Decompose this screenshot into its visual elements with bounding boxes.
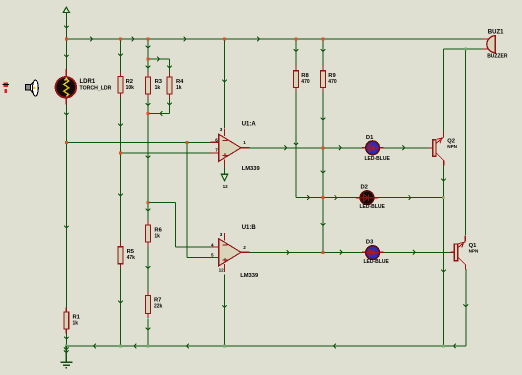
wire ground rail (bottom)	[66, 345, 466, 347]
svg-text:470: 470	[328, 79, 337, 85]
wire R1 to ground rail	[65, 332, 67, 346]
svg-text:LED-BLUE: LED-BLUE	[364, 259, 390, 265]
wire U1:B output to D3 to Q1 base	[250, 251, 363, 253]
wire U1:B ground pin down to rail	[224, 274, 226, 346]
junction squares (light green)	[442, 196, 445, 199]
svg-text:22k: 22k	[154, 304, 163, 310]
wire VCC top rail	[66, 38, 483, 40]
svg-text:2: 2	[243, 245, 246, 250]
LED D1 (LED-BLUE, lit)	[362, 147, 366, 149]
LED D3 (LED-BLUE, lit)	[362, 251, 366, 253]
power symbol +V (top)	[63, 7, 69, 12]
wire Q2 collector feed	[442, 49, 444, 132]
svg-text:6: 6	[215, 137, 218, 142]
wire D2 node down to ground rail	[442, 198, 444, 347]
svg-text:BUZZER: BUZZER	[487, 54, 508, 60]
svg-text:1: 1	[243, 140, 246, 145]
wire R3/R4 branch from rail	[147, 39, 149, 59]
wire node A to R1	[65, 142, 67, 308]
svg-text:1k: 1k	[155, 85, 161, 91]
wire R8 branch from rail	[295, 39, 297, 66]
resistor R7	[147, 291, 149, 296]
op-amp U1:B	[211, 246, 219, 248]
buzzer BUZ1	[482, 38, 489, 40]
svg-text:3: 3	[220, 232, 223, 237]
resistor R8	[295, 66, 297, 71]
junction dots (orange)	[65, 38, 68, 41]
wire R9 branch from rail	[322, 39, 324, 66]
wire U1:A output to D1 to Q2 base	[250, 147, 363, 149]
wire node D to U1:B pin 5	[186, 142, 188, 257]
wire Q1 emitter to ground rail	[465, 269, 467, 346]
wire D2 row	[323, 197, 356, 199]
svg-text:LDR1: LDR1	[80, 79, 96, 85]
resistor R1	[65, 307, 67, 312]
wire R7 to ground rail	[147, 319, 149, 347]
wire arrows on VCC rail and power drop	[64, 26, 69, 28]
LED D2 (LED-BLUE, off)	[356, 197, 360, 199]
svg-text:1k: 1k	[176, 85, 182, 91]
resistor R2	[120, 72, 122, 77]
resistor R9	[322, 66, 324, 71]
svg-text:5: 5	[211, 253, 214, 258]
speaker icon (simulation sound marker)	[25, 84, 30, 90]
wire R4 bottom link	[169, 99, 171, 114]
resistor R4	[169, 72, 171, 77]
svg-text:7: 7	[215, 148, 218, 153]
svg-text:1k: 1k	[154, 234, 160, 240]
wire R2 bottom to node B	[120, 98, 122, 154]
wire R3 top	[147, 59, 149, 73]
svg-text:LM339: LM339	[240, 273, 259, 279]
svg-text:470: 470	[301, 79, 310, 85]
svg-text:D1: D1	[366, 135, 374, 141]
ground symbol below U1:A	[221, 174, 228, 181]
wire R3 bottom	[147, 99, 149, 114]
wire R2 branch from rail	[120, 39, 122, 72]
op-amp U1:A	[211, 141, 219, 143]
transistor Q2 (NPN)	[429, 147, 433, 149]
ground symbol (bottom left)	[65, 346, 67, 362]
svg-text:NPN: NPN	[447, 144, 457, 149]
wire R8 link to output bus	[296, 197, 323, 199]
wire node B to R5	[120, 153, 122, 242]
svg-text:LM339: LM339	[242, 166, 261, 172]
svg-text:D2: D2	[361, 185, 368, 191]
wire node C to U1:B pin 4	[148, 202, 176, 204]
wire R6 to R7	[147, 247, 149, 292]
svg-text:NPN: NPN	[469, 248, 479, 253]
photoresistor LDR1	[65, 69, 67, 77]
svg-text:LED-BLUE: LED-BLUE	[360, 204, 386, 210]
svg-text:TORCH_LDR: TORCH_LDR	[80, 85, 112, 91]
resistor R3	[147, 72, 149, 77]
wire R5 bottom to ground rail	[120, 268, 122, 346]
wire power drop to VCC rail	[65, 12, 67, 39]
wire arrows on ground rail	[94, 344, 96, 349]
wire R8 bottom down	[295, 92, 297, 198]
resistor R6	[147, 220, 149, 225]
svg-text:BUZ1: BUZ1	[488, 30, 504, 36]
transistor Q1 (NPN)	[450, 251, 454, 253]
svg-text:D3: D3	[366, 240, 374, 246]
svg-text:12: 12	[223, 184, 229, 189]
svg-text:12: 12	[219, 267, 225, 272]
svg-text:4: 4	[211, 242, 214, 247]
wire R3R4 node down to node C	[147, 114, 149, 203]
red margin marker	[3, 83, 8, 87]
svg-text:47k: 47k	[127, 255, 136, 261]
wire U1:A inverting input line	[66, 141, 210, 143]
wire Q1 collector feed	[465, 49, 467, 235]
svg-text:1k: 1k	[73, 321, 79, 327]
svg-text:U1:A: U1:A	[242, 122, 257, 128]
wire node C to R6	[147, 203, 149, 221]
wire U1:A non-inverting input line	[121, 152, 211, 154]
wire U1:A V+ branch from rail	[224, 39, 226, 128]
wire LDR1 top feed	[65, 39, 67, 69]
wire output bus vertical	[322, 148, 324, 253]
wire R9 bottom down	[322, 92, 324, 148]
svg-text:LED-BLUE: LED-BLUE	[365, 156, 391, 162]
wire LDR1 bottom to node A	[65, 105, 67, 143]
wire U1:A ground stub	[224, 168, 226, 175]
svg-text:U1:B: U1:B	[242, 225, 257, 231]
resistor R5	[120, 242, 122, 247]
wire R4 top link	[148, 58, 170, 60]
wire buzzer bottom pin line	[443, 48, 482, 50]
svg-text:3: 3	[220, 127, 223, 132]
wire Q2 emitter down to D2 node	[442, 166, 444, 198]
svg-text:10k: 10k	[126, 85, 135, 91]
